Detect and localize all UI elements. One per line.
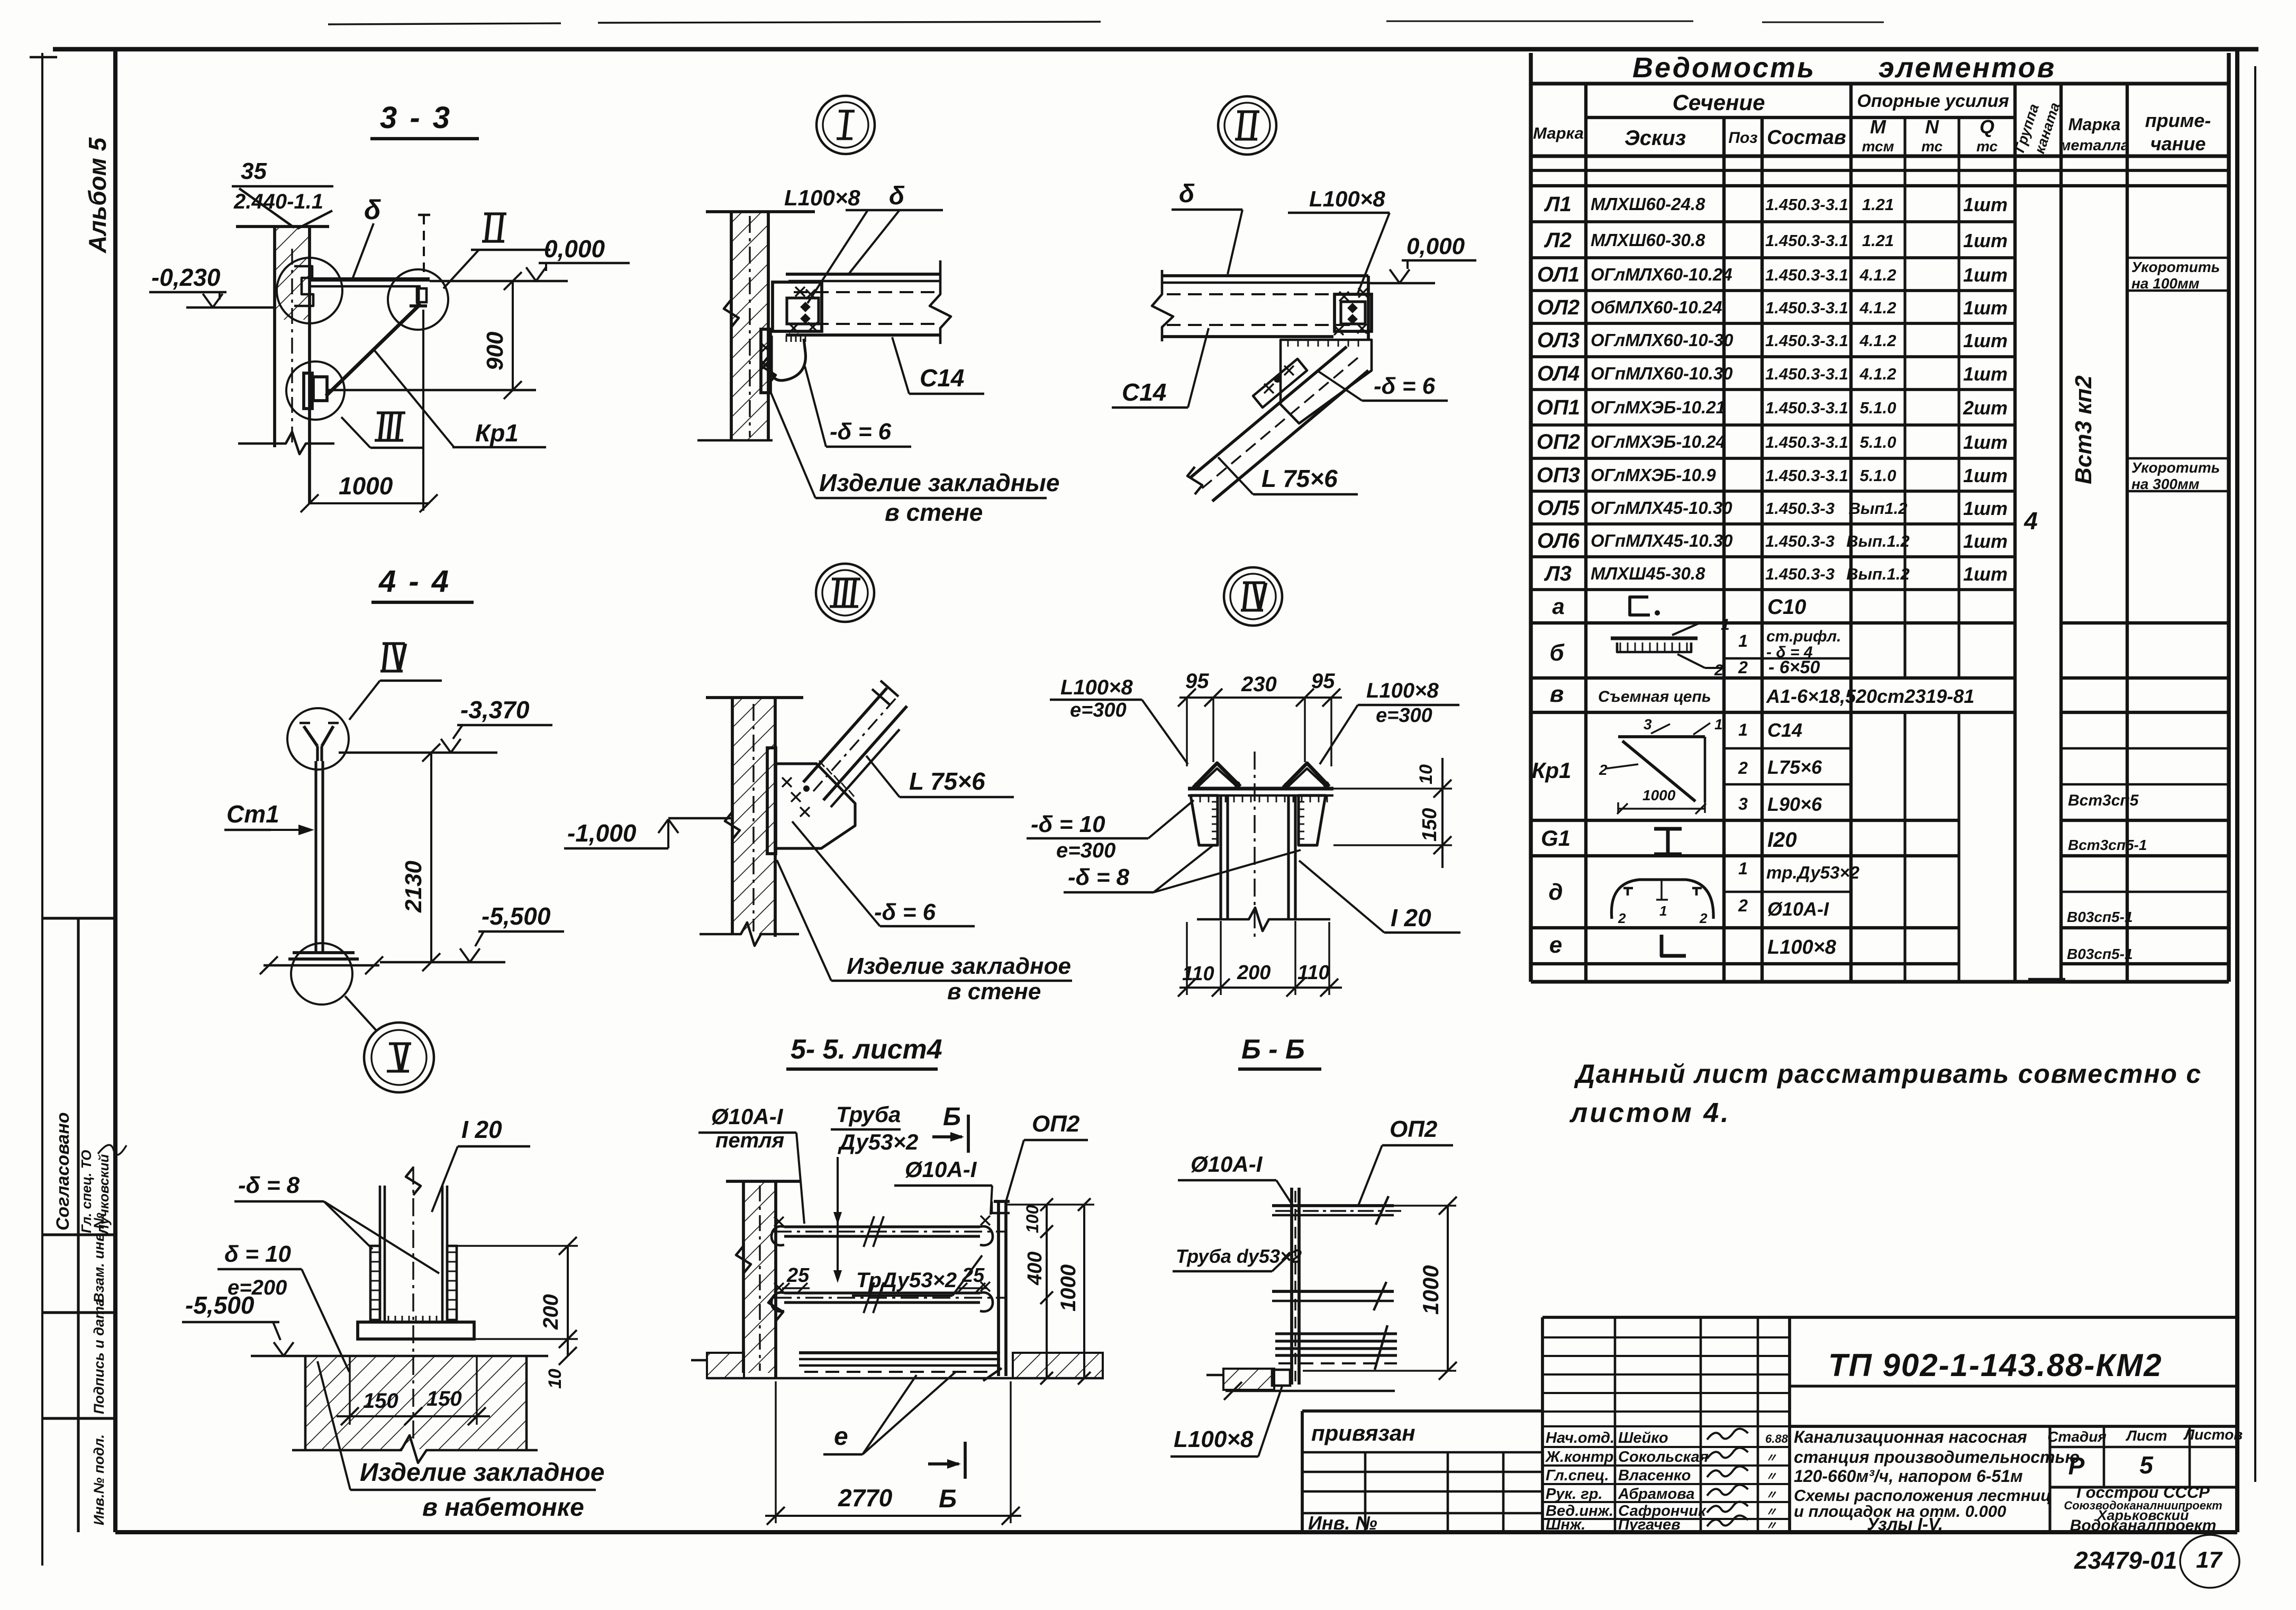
svg-text:Взам. инв.№: Взам. инв.№ xyxy=(91,1213,107,1303)
svg-text:а: а xyxy=(1552,594,1564,619)
svg-text:1.450.3-3.1: 1.450.3-3.1 xyxy=(1765,466,1848,485)
svg-text:-δ = 6: -δ = 6 xyxy=(1374,373,1436,399)
svg-text:Б: Б xyxy=(939,1485,957,1513)
svg-text:23479-01: 23479-01 xyxy=(2074,1546,2177,1574)
svg-text:С14: С14 xyxy=(920,364,964,392)
svg-text:95: 95 xyxy=(1311,670,1335,693)
title block right header cells xyxy=(2048,1426,2051,1532)
svg-text:ОЛ5: ОЛ5 xyxy=(1537,496,1580,520)
svg-text:ТрДу53×2: ТрДу53×2 xyxy=(856,1269,957,1292)
vertical dims 100 400 1000 xyxy=(1006,1204,1094,1205)
svg-text:1шт: 1шт xyxy=(1963,498,2008,519)
svg-text:в: в xyxy=(1550,681,1564,707)
detail IV top plate xyxy=(1188,787,1333,791)
svg-text:Узлы I-V.: Узлы I-V. xyxy=(1867,1514,1943,1534)
svg-text:Ду53×2: Ду53×2 xyxy=(838,1129,918,1154)
svg-text:д: д xyxy=(1548,879,1563,905)
svg-text:- 6×50: - 6×50 xyxy=(1768,657,1820,677)
svg-text:Съемная цепь: Съемная цепь xyxy=(1598,688,1711,705)
svg-text:В03сп5-1: В03сп5-1 xyxy=(2067,909,2133,925)
pipe rail 2 xyxy=(784,1291,980,1294)
title block outer top line xyxy=(1542,1316,2237,1319)
svg-text:С14: С14 xyxy=(1122,378,1166,406)
svg-text:Инв.№ подл.: Инв.№ подл. xyxy=(91,1434,107,1525)
svg-text:6.88: 6.88 xyxy=(1765,1432,1789,1445)
frame right border xyxy=(2235,49,2239,1532)
svg-text:L100×8: L100×8 xyxy=(1309,186,1385,211)
right angle upright detail II piece xyxy=(416,286,420,306)
svg-text:e=300: e=300 xyxy=(1376,704,1432,727)
svg-text:1.450.3-3: 1.450.3-3 xyxy=(1765,565,1835,583)
svg-text:1.450.3-3.1: 1.450.3-3.1 xyxy=(1765,399,1848,417)
detail III marker circle xyxy=(816,564,874,622)
detail I marker circle xyxy=(816,96,875,154)
svg-text:МЛХШ45-30.8: МЛХШ45-30.8 xyxy=(1591,564,1705,583)
svg-text:4 - 4: 4 - 4 xyxy=(378,564,451,599)
svg-text:С10: С10 xyxy=(1767,595,1806,619)
svg-text:1.450.3-3: 1.450.3-3 xyxy=(1765,499,1835,518)
svg-text:1000: 1000 xyxy=(339,472,393,500)
level line 0.000 at platform xyxy=(430,280,568,283)
svg-text:Эскиз: Эскиз xyxy=(1625,126,1686,150)
svg-text:Согласовано: Согласовано xyxy=(53,1112,73,1231)
post top fork in circle IV xyxy=(304,726,317,746)
svg-text:120-660м³/ч, напором 6-51м: 120-660м³/ч, напором 6-51м xyxy=(1794,1467,2023,1486)
svg-text:1шт: 1шт xyxy=(1963,264,2008,286)
svg-text:металла: металла xyxy=(2059,137,2129,154)
svg-text:200: 200 xyxy=(539,1294,562,1330)
svg-text:Л1: Л1 xyxy=(1544,193,1572,216)
label Kr1 with leader xyxy=(374,349,454,447)
dimension 1000 B-B xyxy=(1302,1205,1456,1206)
detail I beam end break xyxy=(930,260,951,344)
svg-text:1: 1 xyxy=(1738,631,1748,650)
svg-text:Q: Q xyxy=(1980,116,1994,138)
svg-text:-δ = 8: -δ = 8 xyxy=(238,1172,300,1198)
svg-text:1шт: 1шт xyxy=(1963,330,2008,351)
svg-text:Альбом 5: Альбом 5 xyxy=(84,137,111,254)
title block KM2 cell xyxy=(1790,1385,2237,1387)
svg-text:4.1.2: 4.1.2 xyxy=(1859,299,1896,317)
svg-text:Труба dy53×2: Труба dy53×2 xyxy=(1176,1245,1302,1267)
detail circle I on 3-3 xyxy=(277,258,342,323)
svg-text:листом 4.: листом 4. xyxy=(1569,1098,1731,1128)
platform band B-B xyxy=(1275,1332,1397,1335)
svg-text:Власенко: Власенко xyxy=(1618,1467,1691,1484)
svg-text:1.21: 1.21 xyxy=(1862,231,1894,250)
svg-text:Б: Б xyxy=(943,1103,961,1131)
svg-text:в набетонке: в набетонке xyxy=(422,1494,584,1522)
svg-text:400: 400 xyxy=(1024,1252,1046,1286)
svg-text:1шт: 1шт xyxy=(1963,230,2008,251)
sheet top edge marks xyxy=(328,23,561,24)
base plate detail V xyxy=(358,1322,474,1339)
svg-text:МЛХШ60-30.8: МЛХШ60-30.8 xyxy=(1591,230,1705,250)
detail circle IV on 4-4 xyxy=(287,708,349,770)
svg-text:1шт: 1шт xyxy=(1963,431,2008,453)
svg-text:Данный лист рассматривать с: Данный лист рассматривать совместно с xyxy=(1574,1059,2202,1089)
detail III stringer xyxy=(803,688,887,782)
svg-text:ОЛ1: ОЛ1 xyxy=(1537,263,1580,286)
svg-text:Опорные усилия: Опорные усилия xyxy=(1857,91,2009,111)
wall cap line 3-3 xyxy=(236,225,329,228)
svg-text:〃: 〃 xyxy=(1765,1488,1777,1502)
detail III wall bottom xyxy=(700,922,799,946)
corner tick top-left xyxy=(30,56,57,59)
detail II beam left break xyxy=(1152,270,1173,341)
label IV with leader xyxy=(383,642,405,645)
table horizontal lines header xyxy=(1531,82,2229,86)
detail I embedded plate xyxy=(761,329,770,393)
svg-text:3: 3 xyxy=(1738,794,1748,813)
svg-text:-δ = 6: -δ = 6 xyxy=(830,419,892,445)
detail III embedded plate xyxy=(767,748,776,854)
outer right sheet line xyxy=(2254,66,2256,1482)
svg-text:2: 2 xyxy=(1738,896,1748,915)
svg-text:Ø10А-I: Ø10А-I xyxy=(1191,1152,1263,1177)
svg-text:2770: 2770 xyxy=(838,1484,893,1512)
detail IV bottom line with break xyxy=(1197,908,1330,931)
svg-text:5.1.0: 5.1.0 xyxy=(1860,466,1896,485)
svg-text:2: 2 xyxy=(1599,762,1608,778)
signature squiggle left stamp xyxy=(98,1145,126,1155)
lower bracket level line xyxy=(326,389,536,392)
extension line right 3-3 xyxy=(422,310,424,511)
svg-text:ОГпМЛХ45-10.30: ОГпМЛХ45-10.30 xyxy=(1591,531,1733,550)
svg-text:G1: G1 xyxy=(1541,826,1571,851)
svg-text:М: М xyxy=(1870,116,1886,138)
svg-text:ОГпМЛХ60-10.30: ОГпМЛХ60-10.30 xyxy=(1591,364,1733,383)
dimension 2130 vertical xyxy=(430,753,432,962)
svg-text:Поз: Поз xyxy=(1728,129,1757,147)
svg-text:привязан: привязан xyxy=(1311,1421,1415,1445)
detail II beam xyxy=(1162,274,1368,277)
detail II marker circle xyxy=(1218,96,1276,155)
svg-text:тр.Ду53×2: тр.Ду53×2 xyxy=(1766,863,1860,882)
detail IV bottom dims 110 200 110 xyxy=(1186,922,1187,995)
svg-text:0,000: 0,000 xyxy=(544,235,605,263)
dimension 2770 xyxy=(775,1381,776,1523)
column I20 detail V xyxy=(379,1186,382,1322)
svg-text:Кр1: Кр1 xyxy=(1532,758,1572,783)
svg-text:б: б xyxy=(1549,640,1565,666)
svg-text:I 20: I 20 xyxy=(461,1116,502,1143)
svg-text:230: 230 xyxy=(1241,673,1277,696)
svg-text:10: 10 xyxy=(1416,764,1436,784)
svg-text:Ст1: Ст1 xyxy=(226,800,279,828)
detail IV left angle tent xyxy=(1193,763,1240,788)
svg-text:в стене: в стене xyxy=(885,499,983,526)
svg-text:тсм: тсм xyxy=(1862,138,1894,155)
svg-text:4.1.2: 4.1.2 xyxy=(1859,365,1896,383)
svg-text:А1-6×18,520ст2319-81: А1-6×18,520ст2319-81 xyxy=(1766,685,1974,707)
svg-text:-δ = 10: -δ = 10 xyxy=(1031,811,1105,837)
svg-text:Лист: Лист xyxy=(2126,1427,2167,1444)
rail 1 B-B xyxy=(1272,1204,1394,1207)
svg-text:Укоротить: Укоротить xyxy=(2131,459,2220,476)
svg-text:1.450.3-3.1: 1.450.3-3.1 xyxy=(1765,433,1848,451)
svg-text:Гл.спец.: Гл.спец. xyxy=(1546,1467,1609,1484)
svg-text:5- 5. лист4: 5- 5. лист4 xyxy=(791,1034,942,1065)
detail IV centerline xyxy=(1254,752,1255,939)
svg-text:2: 2 xyxy=(1738,658,1748,677)
svg-text:1.450.3-3.1: 1.450.3-3.1 xyxy=(1765,195,1848,214)
svg-text:L100×8: L100×8 xyxy=(1767,936,1837,958)
detail I beam C14 xyxy=(786,273,940,276)
svg-text:ОП3: ОП3 xyxy=(1537,464,1580,487)
svg-text:1шт: 1шт xyxy=(1963,363,2008,385)
left extension privyazan block xyxy=(1302,1409,1542,1413)
base level line detail V xyxy=(251,1355,548,1358)
svg-text:е: е xyxy=(1549,932,1562,958)
svg-text:ОГлМЛХ45-10.30: ОГлМЛХ45-10.30 xyxy=(1591,498,1732,518)
svg-text:1000: 1000 xyxy=(1057,1264,1080,1311)
floor line 5-5 xyxy=(707,1377,1104,1380)
svg-text:1.450.3-3: 1.450.3-3 xyxy=(1765,532,1835,550)
detail III wall xyxy=(706,696,803,699)
table body rows xyxy=(1531,220,2015,223)
svg-text:95: 95 xyxy=(1185,670,1209,693)
svg-text:Л3: Л3 xyxy=(1544,562,1572,585)
diagonal brace Kr1 xyxy=(326,304,421,396)
svg-text:Укоротить: Укоротить xyxy=(2131,259,2220,275)
svg-text:1шт: 1шт xyxy=(1963,465,2008,486)
svg-text:-δ = 8: -δ = 8 xyxy=(1068,864,1130,890)
left stamp column grid xyxy=(42,917,115,919)
svg-text:5.1.0: 5.1.0 xyxy=(1860,399,1896,417)
svg-text:ТП 902-1-143.88-КМ2: ТП 902-1-143.88-КМ2 xyxy=(1828,1347,2163,1383)
svg-text:Инв. №: Инв. № xyxy=(1308,1512,1377,1534)
svg-text:ОЛ2: ОЛ2 xyxy=(1537,296,1580,319)
svg-text:150: 150 xyxy=(363,1389,398,1413)
label III with leader xyxy=(377,411,405,414)
svg-text:Вып1.2: Вып1.2 xyxy=(1849,499,1908,518)
svg-text:Ø10А-I: Ø10А-I xyxy=(711,1104,784,1129)
svg-text:ОП2: ОП2 xyxy=(1537,430,1580,454)
detail IV marker circle xyxy=(1224,567,1282,626)
svg-text:110: 110 xyxy=(1182,963,1214,985)
svg-text:ОбМЛХ60-10.24: ОбМЛХ60-10.24 xyxy=(1591,297,1722,317)
svg-text:Пугачев: Пугачев xyxy=(1618,1516,1681,1533)
svg-text:1шт: 1шт xyxy=(1963,297,2008,319)
svg-text:L100×8: L100×8 xyxy=(784,185,860,210)
svg-text:на 300мм: на 300мм xyxy=(2131,476,2200,492)
svg-text:2шт: 2шт xyxy=(1963,397,2008,419)
svg-text:приме-: приме- xyxy=(2145,110,2211,131)
svg-text:I 20: I 20 xyxy=(1391,904,1431,931)
svg-text:Марка: Марка xyxy=(2068,115,2121,134)
svg-text:5: 5 xyxy=(2139,1451,2154,1479)
detail III gusset plate xyxy=(775,764,855,848)
floor slab left hatched xyxy=(707,1353,744,1378)
svg-text:Б - Б: Б - Б xyxy=(1241,1034,1305,1065)
svg-text:I20: I20 xyxy=(1767,828,1797,852)
svg-text:ОП2: ОП2 xyxy=(1390,1116,1438,1142)
svg-text:-5,500: -5,500 xyxy=(185,1291,255,1319)
svg-text:δ: δ xyxy=(1179,180,1195,208)
svg-text:L100×8: L100×8 xyxy=(1060,676,1133,699)
svg-text:Шнж.: Шнж. xyxy=(1546,1516,1585,1533)
concrete block hatched xyxy=(305,1357,527,1449)
svg-text:3: 3 xyxy=(1644,716,1652,732)
svg-text:-5,500: -5,500 xyxy=(482,902,551,930)
section mark B bottom xyxy=(928,1462,959,1466)
svg-text:ОГлМХЭБ-10.24: ОГлМХЭБ-10.24 xyxy=(1591,432,1726,451)
floor piece left B-B xyxy=(1223,1369,1274,1390)
detail I wall xyxy=(706,210,815,213)
svg-text:Ж.контр.: Ж.контр. xyxy=(1545,1449,1618,1466)
svg-text:L 75×6: L 75×6 xyxy=(909,767,985,795)
svg-text:Изделие закладное: Изделие закладное xyxy=(847,953,1071,979)
svg-text:1.450.3-3.1: 1.450.3-3.1 xyxy=(1765,365,1848,383)
title block small grid xyxy=(1541,1317,1544,1532)
svg-text:Подпись и дата: Подпись и дата xyxy=(91,1298,107,1414)
svg-text:Сокольская: Сокольская xyxy=(1618,1449,1709,1466)
svg-text:1: 1 xyxy=(1714,716,1723,732)
svg-text:-0,230: -0,230 xyxy=(151,264,221,291)
svg-text:е: е xyxy=(834,1423,848,1451)
svg-text:L 75×6: L 75×6 xyxy=(1262,465,1338,492)
short line in shaft bottom xyxy=(2028,978,2065,981)
svg-text:Нач.отд.: Нач.отд. xyxy=(1546,1430,1614,1446)
svg-text:100: 100 xyxy=(1023,1205,1042,1233)
svg-text:1.450.3-3.1: 1.450.3-3.1 xyxy=(1765,299,1848,317)
svg-text:Ø10А-I: Ø10А-I xyxy=(905,1157,977,1182)
dimension 200 and 10 right detail V xyxy=(457,1245,578,1246)
detail III bracket on wall xyxy=(304,373,312,409)
detail I bolt bracket xyxy=(773,282,822,331)
svg-text:δ: δ xyxy=(889,182,905,210)
svg-text:2: 2 xyxy=(1618,910,1626,926)
svg-text:1шт: 1шт xyxy=(1963,530,2008,552)
svg-text:Ø10А-I: Ø10А-I xyxy=(1767,898,1829,920)
svg-text:Изделие закладное: Изделие закладное xyxy=(360,1459,605,1487)
detail circle V on 4-4 xyxy=(291,943,352,1005)
svg-text:1шт: 1шт xyxy=(1963,563,2008,585)
svg-text:5.1.0: 5.1.0 xyxy=(1860,433,1896,451)
svg-text:2: 2 xyxy=(1699,910,1708,926)
svg-text:В03сп5-1: В03сп5-1 xyxy=(2067,946,2133,962)
svg-text:10: 10 xyxy=(545,1369,565,1389)
leader from V circle to marker xyxy=(345,996,377,1031)
svg-text:Шейко: Шейко xyxy=(1618,1430,1668,1446)
svg-text:1шт: 1шт xyxy=(1963,194,2008,215)
table notes ukorotit xyxy=(2127,257,2229,259)
svg-text:δ: δ xyxy=(364,195,381,225)
svg-text:Вып.1.2: Вып.1.2 xyxy=(1846,532,1910,550)
svg-text:Труба: Труба xyxy=(836,1102,901,1127)
svg-text:элементов: элементов xyxy=(1878,52,2056,84)
svg-text:1.450.3-3.1: 1.450.3-3.1 xyxy=(1765,231,1848,250)
column dashed centerline above platform xyxy=(423,215,425,279)
svg-text:ст.рифл.: ст.рифл. xyxy=(1766,628,1841,645)
outer left sheet line xyxy=(41,53,43,1566)
svg-text:1: 1 xyxy=(1738,859,1748,878)
stiffener plates detail V xyxy=(370,1246,380,1320)
svg-text:Водоканалпроект: Водоканалпроект xyxy=(2070,1517,2217,1534)
svg-text:2: 2 xyxy=(1714,662,1723,679)
detail II stringer xyxy=(1191,347,1347,477)
title block signature rows xyxy=(1542,1425,1790,1427)
svg-text:Вст3сп5-1: Вст3сп5-1 xyxy=(2068,837,2147,853)
svg-text:ОЛ6: ОЛ6 xyxy=(1537,529,1580,553)
svg-text:на 100мм: на 100мм xyxy=(2131,275,2200,292)
svg-text:L100×8: L100×8 xyxy=(1174,1426,1254,1452)
frame bottom border xyxy=(115,1530,2237,1534)
svg-text:3 - 3: 3 - 3 xyxy=(380,101,452,135)
svg-text:〃: 〃 xyxy=(1765,1470,1777,1483)
detail V marker circle xyxy=(364,1023,434,1092)
svg-text:1.450.3-3.1: 1.450.3-3.1 xyxy=(1765,331,1848,350)
svg-text:ОЛ3: ОЛ3 xyxy=(1537,329,1580,352)
svg-text:150: 150 xyxy=(426,1387,462,1410)
platform plate 3-3 xyxy=(310,277,430,282)
svg-text:Вып.1.2: Вып.1.2 xyxy=(1846,565,1910,583)
detail II stringer angle xyxy=(1253,359,1307,408)
svg-text:Абрамова: Абрамова xyxy=(1618,1486,1694,1503)
svg-text:〃: 〃 xyxy=(1765,1505,1777,1518)
svg-text:Листов: Листов xyxy=(2183,1426,2243,1443)
dimension 150 150 detail V xyxy=(349,1356,350,1425)
post OP2 on 5-5 xyxy=(997,1201,1000,1376)
svg-text:-δ = 6: -δ = 6 xyxy=(874,899,936,925)
svg-text:1.21: 1.21 xyxy=(1862,195,1894,214)
wall strip 3-3 xyxy=(275,227,310,320)
svg-text:ОГлМЛХ60-10-30: ОГлМЛХ60-10-30 xyxy=(1591,330,1734,350)
detail II bolt bracket xyxy=(1335,294,1372,331)
angle L100x8 under post B-B xyxy=(1272,1370,1290,1386)
detail IV right angle tent xyxy=(1283,763,1329,788)
svg-text:4: 4 xyxy=(2023,507,2038,535)
table lower sub row lines xyxy=(1724,657,1851,660)
svg-text:4.1.2: 4.1.2 xyxy=(1859,331,1896,350)
svg-text:1000: 1000 xyxy=(1642,787,1676,803)
svg-text:1: 1 xyxy=(1721,616,1730,634)
detail IV right dims 10 and 150 xyxy=(1333,788,1452,789)
detail I lower bracket xyxy=(772,336,805,381)
table lower rows lines xyxy=(1531,621,2015,625)
svg-text:e=300: e=300 xyxy=(1056,839,1115,862)
svg-text:δ = 10: δ = 10 xyxy=(224,1241,291,1267)
floor slab right hatched xyxy=(1013,1353,1103,1378)
ground line B-B xyxy=(1226,1390,1395,1392)
label II with leader xyxy=(484,212,506,215)
svg-text:900: 900 xyxy=(482,331,508,370)
svg-text:4.1.2: 4.1.2 xyxy=(1859,266,1896,284)
detail IV side gusset plates xyxy=(1191,795,1218,845)
detail IV columns xyxy=(1219,795,1222,919)
svg-text:L90×6: L90×6 xyxy=(1767,793,1822,815)
rail 2 B-B xyxy=(1272,1290,1394,1293)
svg-text:1000: 1000 xyxy=(1418,1265,1443,1315)
svg-text:Л2: Л2 xyxy=(1544,229,1572,252)
svg-text:35: 35 xyxy=(241,158,267,184)
svg-text:2: 2 xyxy=(1738,758,1748,777)
table outer and column lines xyxy=(1529,53,1532,982)
svg-text:150: 150 xyxy=(1419,808,1441,842)
svg-text:Вст3 кп2: Вст3 кп2 xyxy=(2071,375,2097,484)
svg-text:станция производительностью: станция производительностью xyxy=(1794,1448,2080,1467)
svg-text:тс: тс xyxy=(1921,138,1943,155)
svg-text:ОГлМХЭБ-10.9: ОГлМХЭБ-10.9 xyxy=(1591,465,1716,485)
svg-text:-1,000: -1,000 xyxy=(567,819,637,847)
svg-text:2130: 2130 xyxy=(401,861,426,913)
embedded anchor hooks in wall xyxy=(294,266,313,306)
wall axis dash-dot xyxy=(291,249,293,447)
floor walkway 5-5 xyxy=(799,1351,1000,1354)
svg-text:Кр1: Кр1 xyxy=(475,419,519,447)
svg-text:〃: 〃 xyxy=(1765,1451,1777,1464)
